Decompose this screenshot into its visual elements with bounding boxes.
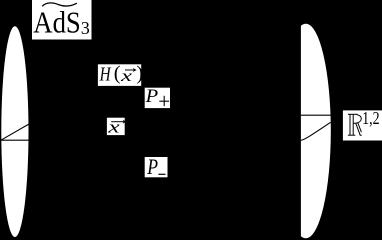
left boundary ellipse (AdS3 cylinder end-cap) bbox=[1, 26, 28, 237]
bowl bbox=[353, 115, 361, 124]
svg-text:x: x bbox=[107, 118, 120, 137]
plus subscript bbox=[163, 96, 165, 106]
label box: widetilde AdS_3 bbox=[32, 0, 92, 40]
minus subscript bbox=[158, 173, 165, 175]
left wedge horizontal line bbox=[1, 139, 29, 141]
svg-text:3: 3 bbox=[81, 18, 90, 38]
svg-text:AdS: AdS bbox=[33, 5, 81, 40]
blackboard-bold R drawn with strokes bbox=[348, 114, 362, 135]
label box: R^{1,2} bbox=[343, 108, 382, 140]
vector arrow over x bbox=[111, 121, 124, 123]
label box: H(x-vec) bbox=[98, 62, 143, 86]
label box: x-vec bbox=[107, 118, 127, 137]
inner stem bbox=[352, 114, 354, 135]
label box: P_- bbox=[145, 154, 168, 179]
svg-text:P: P bbox=[144, 87, 158, 107]
left wedge diagonal line bbox=[1, 124, 29, 140]
svg-text:(: ( bbox=[114, 62, 121, 84]
svg-text:P: P bbox=[146, 154, 158, 179]
outer stem bbox=[349, 114, 351, 135]
right wedge curved geodesic line bbox=[301, 122, 331, 140]
leg bbox=[356, 123, 362, 135]
bottom serif bar bbox=[348, 134, 355, 136]
svg-text:1,2: 1,2 bbox=[362, 108, 380, 128]
vector arrow over x bbox=[125, 69, 135, 71]
svg-text:): ) bbox=[136, 62, 143, 84]
widetilde accent bbox=[42, 3, 77, 6]
top serif bar bbox=[348, 113, 358, 115]
svg-text:H: H bbox=[99, 64, 112, 86]
label box: P_+ bbox=[144, 87, 170, 108]
right wedge horizontal line bbox=[301, 114, 332, 116]
